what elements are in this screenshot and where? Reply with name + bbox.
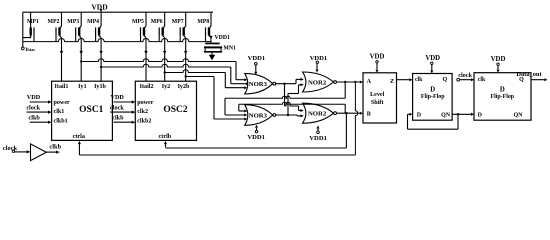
label OSC1 [79,105,104,115]
svg-text:power: power [137,100,154,106]
svg-text:clkb1: clkb1 [54,119,68,125]
power VDD1 to NOR3a [248,55,266,75]
svg-text:VDD: VDD [27,94,41,101]
transistor MP7 [172,12,186,41]
svg-text:ctrla: ctrla [73,133,85,140]
wire W6 NOR2b out to NOR3b in1 [239,102,345,113]
svg-text:NOR3: NOR3 [249,112,268,119]
wire NOR2a out to A [337,81,363,84]
svg-text:Level: Level [370,91,385,98]
wire drain MP3 [80,38,83,81]
svg-text:NOR2: NOR2 [308,111,327,118]
svg-text:clk: clk [478,77,486,83]
power VDD to Level Shift [370,53,385,73]
svg-text:VDD: VDD [491,56,506,63]
block OSC1 [52,81,113,140]
svg-text:clkb2: clkb2 [137,119,151,125]
wire drain MP7 [184,38,187,81]
svg-text:clkb: clkb [29,114,41,121]
wire W5 NOR2a out to NOR3b in2 [225,82,345,117]
port VDD to OSC1 power [27,94,52,103]
wire NOR3a out to NOR2b in1 [285,84,304,112]
svg-text:NOR3: NOR3 [249,81,268,88]
node tap Iy2b [185,75,187,77]
node Ibias [21,47,35,53]
transistor MP5 [132,12,146,41]
wire NOR3b out to NOR2a in2 [288,83,304,115]
svg-text:Iy1b: Iy1b [94,84,106,90]
label OSC2 [163,105,188,115]
svg-text:MP5: MP5 [132,19,144,25]
svg-text:Iy1: Iy1 [78,84,86,90]
svg-text:VDD1: VDD1 [247,134,265,141]
label OSC1 ctrla [73,133,85,140]
wire drain MP2 [60,38,63,81]
svg-text:VDD1: VDD1 [215,35,231,41]
node J2 [287,114,289,116]
port clock to OSC2 clk2 [110,104,135,113]
svg-text:clock: clock [458,72,472,79]
svg-text:D: D [430,86,435,93]
svg-text:Flip-Flop: Flip-Flop [421,94,445,100]
transistor MP1 [23,12,39,47]
block D Flip-Flop U3 [474,73,531,121]
node tap Iy1 [80,60,82,62]
port clock to OSC1 clk1 [26,104,51,113]
port clock (bottom left) [3,145,30,154]
svg-text:clk: clk [415,77,423,83]
block OSC2 [135,81,196,140]
wire bus Iy2b to NOR3b input3 [186,77,248,121]
block D Flip-Flop U2 [413,74,453,121]
svg-text:Iy2: Iy2 [162,84,170,90]
node tap Iy1b [100,66,102,68]
svg-text:clock: clock [3,145,18,152]
svg-text:VDD: VDD [370,53,385,60]
svg-text:ctrlb: ctrlb [159,133,172,140]
svg-text:VDD: VDD [91,2,108,11]
node FB tap bottom [345,112,347,114]
transistor MP6 [151,12,165,41]
transistor MP8 [197,12,211,41]
svg-text:clk1: clk1 [54,109,65,115]
svg-text:D: D [500,86,505,93]
nor-gate NOR2b (bottom 2-input) [303,103,337,123]
wire gate rail [23,38,211,41]
transistor MP2 [48,12,62,41]
power VDD (top rail) [91,2,108,12]
transistor MP4 [87,12,101,41]
label OSC2 pins top [140,84,190,90]
wire bus Iy1 to NOR3a input1 [81,59,247,82]
nor-gate NOR2a (top 2-input) [303,72,337,92]
svg-text:D: D [478,113,483,119]
svg-text:Flip-Flop: Flip-Flop [491,94,515,100]
nor-gate NOR3a (top 3-input) [245,73,276,94]
svg-text:Itail2: Itail2 [140,84,154,90]
svg-text:Data_out: Data_out [516,71,542,78]
label OSC2 ctrlb [159,133,172,140]
svg-text:clock: clock [110,104,124,111]
wire NOR2b out to B [337,112,363,115]
power VDD1 to NOR2a [310,55,328,72]
wire FF1 feedback QN to D [408,113,459,129]
svg-text:OSC2: OSC2 [163,105,188,115]
wire FB2 NOR2a out to ctrla [78,82,358,155]
svg-text:QN: QN [441,113,451,119]
wire drain MP5 [144,38,147,81]
wire FB1 NOR2b out to ctrlb [164,113,346,148]
svg-text:Z: Z [390,79,394,85]
svg-text:clkb: clkb [49,143,61,150]
svg-text:VDD: VDD [425,55,440,62]
svg-text:Shift: Shift [371,99,385,106]
power VDD1 to NOR2b [309,125,327,142]
svg-text:OSC1: OSC1 [79,105,104,115]
nor-gate NOR3b (bottom 3-input) [245,105,276,126]
block Level Shift [363,73,397,123]
power VDD to FF2 [491,56,506,73]
wire drain MP8 / node VDD1 [209,35,230,43]
node tap Iy2 [164,71,166,73]
port clkb to OSC1 clkb1 [29,114,52,123]
ground (below MN1) [209,53,216,61]
wire NOR3b out to NOR2b in2 [276,114,304,117]
svg-text:clock: clock [26,104,40,111]
label OSC2 pins left [137,100,154,125]
svg-text:MP3: MP3 [67,19,79,25]
label FF2 [478,77,525,119]
power VDD to FF1 [425,55,440,74]
svg-text:clkb: clkb [112,114,124,121]
svg-text:MP7: MP7 [172,19,184,25]
wire FF1 QN to FF2 D [452,113,474,116]
svg-text:VDD1: VDD1 [309,135,327,142]
wire VDD rail [23,11,213,13]
transistor MP3 [67,12,81,41]
transistor MN1 (MOS cap) [204,43,236,53]
port VDD to OSC2 power [110,94,135,103]
port clkb to OSC2 clkb2 [112,114,135,123]
svg-text:Itail1: Itail1 [55,84,69,90]
svg-text:Q: Q [442,77,447,83]
svg-text:VDD: VDD [110,94,124,101]
node FB taps top [344,81,357,83]
svg-text:A: A [367,79,372,85]
svg-text:MP6: MP6 [151,19,163,25]
svg-text:MP4: MP4 [87,19,99,25]
wire Data_out [516,71,547,81]
label FF1 [415,77,451,119]
buffer U1 [31,144,47,161]
wire bus Iy2 to NOR3a input3 [165,70,248,90]
wire bus Iy1b to NOR3a input2 [101,64,249,85]
wire drain MP4 [99,38,102,81]
svg-text:MN1: MN1 [223,45,236,51]
svg-text:B: B [367,112,371,118]
svg-text:power: power [54,100,71,106]
svg-text:D: D [417,113,422,119]
label Level Shift [367,79,394,118]
port clock to FF2 clk [457,72,474,81]
label OSC1 pins top [55,84,107,90]
svg-text:MP2: MP2 [48,19,60,25]
wire drain MP6 [163,38,166,81]
svg-text:NOR2: NOR2 [308,79,327,86]
svg-text:Iy2b: Iy2b [178,84,190,90]
wire Z to FF1 clk [397,78,413,81]
label OSC1 pins left [54,100,71,125]
wire clkb out [46,143,61,153]
svg-text:VDD1: VDD1 [248,55,266,62]
svg-text:MP8: MP8 [197,19,209,25]
node J1 [283,83,285,85]
svg-text:MP1: MP1 [27,19,39,25]
wire NOR3a out to NOR2a in1 [276,78,304,84]
svg-text:QN: QN [514,113,524,119]
svg-text:clk2: clk2 [137,109,148,115]
power VDD1 to NOR3b [247,125,265,141]
